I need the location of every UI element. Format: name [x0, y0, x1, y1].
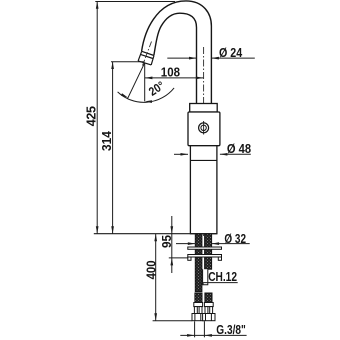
dim 108	[145, 77, 204, 79]
cap body O48	[188, 112, 220, 146]
bottom ext nuts	[153, 320, 193, 322]
G3/8 dim line	[180, 334, 246, 336]
dim O48	[174, 153, 188, 155]
collar	[190, 104, 218, 113]
body joint line	[190, 159, 217, 161]
dim 400	[155, 234, 157, 321]
plate ext for 95	[169, 257, 188, 259]
20 deg slant leg	[127, 63, 144, 99]
G3/8 ext lines	[194, 321, 196, 337]
supply pipe	[203, 269, 208, 285]
knob U1	[203, 121, 205, 135]
hex nut right	[203, 314, 215, 321]
aerator centerline	[143, 42, 152, 66]
hose right	[205, 293, 212, 303]
threaded shank left	[195, 234, 202, 292]
svg-text:425: 425	[84, 106, 98, 126]
lower body	[190, 146, 217, 234]
ferrule right	[204, 303, 213, 307]
threaded shank right	[205, 234, 212, 269]
dim O32	[176, 243, 195, 245]
aerator tip	[138, 51, 154, 65]
washer plate 2	[188, 255, 222, 258]
riser centerline	[203, 47, 205, 236]
svg-text:Ø 32: Ø 32	[224, 232, 246, 246]
hex nut left	[192, 314, 204, 321]
CH.12 label	[203, 282, 238, 284]
20 deg vertical leg	[144, 63, 146, 102]
neck bars right	[205, 307, 208, 314]
hose left	[195, 293, 202, 303]
dim 425	[96, 2, 98, 234]
tab right	[218, 257, 221, 260]
20 deg arc	[118, 88, 175, 102]
dim 314	[112, 62, 114, 234]
neck bars left	[194, 307, 197, 314]
svg-text:95: 95	[160, 235, 174, 248]
svg-text:108: 108	[161, 65, 180, 79]
extension line top	[95, 1, 175, 3]
washer plate 1	[188, 247, 222, 249]
spout outer curve	[142, 1, 212, 104]
ferrule left	[194, 303, 203, 307]
tab left	[188, 257, 191, 260]
dim 95	[171, 216, 173, 273]
svg-text:Ø 48: Ø 48	[227, 142, 251, 156]
dim O24	[167, 57, 196, 59]
svg-text:314: 314	[100, 131, 114, 151]
extension line spout tip	[111, 61, 145, 63]
svg-text:G.3/8": G.3/8"	[216, 323, 246, 337]
spout inner curve	[154, 13, 197, 103]
deck line	[94, 233, 217, 235]
svg-text:400: 400	[144, 260, 158, 279]
svg-text:CH.12: CH.12	[208, 270, 237, 284]
svg-text:Ø 24: Ø 24	[219, 46, 242, 60]
